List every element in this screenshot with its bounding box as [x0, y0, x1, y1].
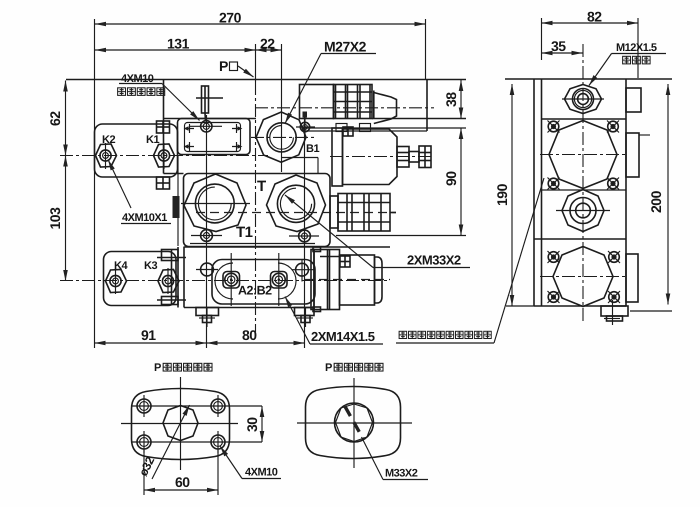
dimension 200	[648, 84, 668, 305]
label M27X2	[285, 39, 376, 124]
K plate lower	[104, 252, 177, 306]
thread boss outline	[306, 387, 401, 459]
lever stick	[196, 86, 223, 121]
thread mark	[345, 407, 363, 439]
svg-text:4XM10X1: 4XM10X1	[122, 212, 167, 224]
solenoid top cap	[374, 91, 397, 124]
side tab C	[626, 254, 638, 302]
svg-text:22: 22	[260, 36, 275, 52]
dimension 22	[256, 36, 282, 52]
MAINVIEW	[47, 10, 470, 349]
label 2XM14X1.5	[285, 297, 383, 345]
svg-text:K4: K4	[114, 260, 128, 272]
body top edge	[66, 79, 466, 81]
AB subplate	[212, 260, 315, 305]
svg-text:4XM10: 4XM10	[245, 467, 278, 479]
B1 thread circle	[267, 123, 296, 152]
solenoid top centerline	[255, 107, 434, 109]
side lower octagon	[553, 247, 613, 307]
body step near B1	[317, 158, 319, 174]
body section line y118.5	[164, 118, 257, 120]
AB corner hole right	[292, 259, 314, 282]
SIDEVIEW	[396, 9, 672, 344]
svg-text:103: 103	[47, 207, 63, 230]
dimension 103	[47, 156, 66, 282]
label P port	[219, 58, 254, 77]
extension line y128	[303, 127, 466, 129]
side bolt ML	[548, 291, 560, 303]
thread vertical centerline	[353, 378, 355, 468]
svg-text:A2:B2: A2:B2	[238, 284, 272, 298]
label M12X1.5 with leader	[589, 42, 666, 86]
THREADVIEW	[297, 362, 428, 480]
mid body inner edge	[177, 155, 179, 246]
extension x638	[637, 18, 639, 78]
side bolt BR	[607, 178, 619, 190]
svg-text:2XM33X2: 2XM33X2	[407, 253, 461, 268]
extension line left x94.5	[94, 19, 96, 348]
ribbed fitting 2XM33X2	[330, 194, 396, 232]
svg-text:M12X1.5: M12X1.5	[616, 42, 657, 54]
svg-text:B1: B1	[306, 143, 319, 155]
side section line y119	[542, 118, 627, 120]
foot right	[295, 308, 315, 328]
B2 bolt boss	[271, 272, 288, 289]
flange bolt row line bottom	[132, 441, 262, 443]
flange bolt TR	[211, 395, 225, 417]
port T1 thread circle	[195, 184, 234, 223]
solenoid3 coil	[314, 250, 340, 310]
AB pocket contours	[215, 263, 233, 299]
mid body step	[164, 173, 184, 175]
solenoid3 cap	[375, 257, 383, 303]
svg-text:90: 90	[443, 171, 459, 186]
svg-text:2XM14X1.5: 2XM14X1.5	[311, 329, 375, 344]
lower body bottom edge	[184, 307, 311, 309]
T1 centerline	[181, 203, 250, 205]
A2 boss centerline	[230, 253, 232, 306]
side upper octagon	[549, 121, 617, 189]
side section line y190	[542, 189, 627, 191]
bolt near B1	[296, 112, 315, 137]
label 4XM10 mounting	[118, 73, 200, 121]
label 4XM10	[220, 446, 281, 479]
bolt below T	[289, 230, 319, 242]
label 4XM10X1	[108, 160, 171, 225]
svg-text:60: 60	[175, 474, 190, 490]
thread polygon	[336, 404, 373, 442]
dark seam	[173, 196, 180, 218]
extension 190 bottom	[506, 305, 534, 307]
label mounting face	[396, 178, 544, 343]
svg-text:T: T	[257, 178, 266, 195]
svg-text:P: P	[154, 362, 161, 374]
body top-left edge	[163, 80, 165, 174]
solenoid2 coil	[343, 129, 398, 185]
extension 200 bottom	[630, 310, 672, 312]
side section line y239	[534, 238, 626, 240]
side horizontal centerline lower	[540, 276, 626, 278]
flange bolt row line top	[132, 405, 262, 407]
svg-text:35: 35	[551, 38, 566, 54]
foot left	[196, 308, 219, 328]
svg-text:P: P	[325, 362, 332, 374]
solenoid3 centerline	[305, 279, 390, 281]
dimension 38	[443, 80, 461, 119]
thread circle	[335, 403, 374, 442]
extension line x304.5	[304, 117, 306, 348]
K1 boss	[154, 143, 175, 169]
lower body second line	[190, 243, 315, 245]
label M33X2	[362, 437, 429, 480]
svg-text:K3: K3	[144, 260, 157, 272]
dimension 80	[207, 327, 305, 343]
M12 hex boss	[562, 85, 604, 114]
extension line right x425.5	[425, 19, 427, 80]
K3 boss	[158, 268, 179, 294]
solenoid2 fitting	[397, 146, 431, 168]
subplate corner marks	[185, 124, 241, 151]
side foot	[601, 300, 628, 325]
spool end caps left	[157, 247, 186, 308]
pilot subplate inner	[185, 123, 241, 152]
port T octagon	[267, 175, 326, 232]
thread horizontal centerline	[297, 422, 412, 424]
solenoid top coil	[300, 85, 334, 119]
dimension 190	[494, 84, 512, 306]
port T thread circle	[277, 185, 314, 222]
flange horizontal centerline	[121, 423, 238, 425]
FLANGEVIEW	[121, 362, 281, 495]
K lower centerline	[60, 280, 390, 282]
side left edge	[533, 79, 535, 306]
flange bolt BR	[211, 431, 225, 453]
extension line x206.5	[206, 115, 208, 348]
svg-text:190: 190	[494, 183, 510, 206]
K4 boss	[106, 268, 127, 294]
extension x541.5	[541, 18, 543, 60]
solenoid top ribs	[334, 85, 373, 119]
solenoid2 plate	[332, 127, 353, 186]
lower body top line	[184, 246, 391, 248]
B1 boss octagon	[256, 112, 306, 162]
side bolt TL	[548, 121, 560, 133]
dimension 91	[95, 327, 207, 343]
svg-text:M27X2: M27X2	[324, 39, 367, 55]
solenoid2 centerline	[330, 156, 434, 158]
svg-text:38: 38	[443, 92, 459, 107]
side bolt LR	[608, 251, 620, 263]
flange bolt BL	[137, 431, 151, 453]
dimension 60	[144, 450, 218, 495]
side vertical centerline	[582, 44, 584, 322]
K plate upper	[95, 124, 178, 177]
solenoid3 tube	[340, 255, 375, 305]
fitting centerline dash	[196, 212, 396, 214]
B1 centerline	[251, 136, 316, 138]
A2 bolt boss	[223, 272, 240, 289]
body top-right edge	[426, 80, 428, 132]
dimension 62	[47, 81, 66, 156]
extension line x281.5 through B1	[281, 44, 283, 172]
side right edge	[625, 79, 627, 306]
side tab B	[626, 133, 639, 177]
side bolt MR	[608, 291, 620, 303]
flange outline	[132, 389, 230, 460]
side left inner edge	[541, 79, 543, 306]
flange vertical centerline	[180, 377, 182, 470]
svg-text:P: P	[219, 58, 228, 74]
side tab A	[626, 88, 641, 112]
side tick y135	[639, 134, 650, 136]
svg-text:T1: T1	[236, 224, 253, 241]
side top edge	[505, 78, 672, 80]
svg-text:K1: K1	[146, 134, 159, 146]
solenoid top mount tabs2	[336, 124, 371, 132]
dimension 131	[95, 36, 256, 52]
flange center octagon	[163, 406, 198, 441]
label 2XM33X2	[285, 195, 470, 268]
side horizontal centerline upper	[540, 154, 626, 156]
B2 boss centerline	[278, 253, 280, 306]
svg-text:M33X2: M33X2	[385, 468, 418, 480]
flange bolt TL	[137, 395, 151, 417]
K1 side tabs	[157, 121, 170, 189]
svg-text:270: 270	[219, 10, 242, 26]
lower body left edge	[183, 247, 185, 308]
dimension 82	[542, 9, 639, 25]
solenoid3 connector	[320, 256, 350, 267]
pilot subplate outer	[178, 119, 251, 155]
side mid port	[556, 190, 610, 232]
side bottom edge	[534, 305, 626, 307]
dimension 30	[244, 406, 262, 442]
mid body block	[184, 174, 331, 247]
svg-text:131: 131	[167, 36, 190, 52]
side bolt TR	[607, 121, 619, 133]
P port centerline	[255, 44, 257, 82]
svg-text:200: 200	[648, 190, 664, 213]
K centerline	[60, 155, 268, 157]
side bolt BL	[548, 178, 560, 190]
dimension 90	[443, 128, 461, 236]
dimension 35	[542, 38, 583, 54]
label dia32	[136, 405, 189, 479]
svg-text:K2: K2	[102, 134, 115, 146]
solenoid3 plate	[311, 247, 321, 312]
dimension 270	[95, 10, 426, 26]
port T1 octagon	[184, 174, 246, 232]
AB corner hole left	[196, 263, 218, 276]
side bolt LL	[548, 251, 560, 263]
mounting hole 4XM10	[190, 121, 222, 132]
extension line y235	[336, 235, 466, 237]
svg-text:82: 82	[587, 9, 602, 25]
svg-text:91: 91	[141, 327, 156, 343]
K2 boss	[96, 143, 117, 169]
bolt below T1	[191, 230, 222, 242]
svg-text:62: 62	[47, 111, 63, 126]
svg-text:30: 30	[244, 417, 260, 432]
